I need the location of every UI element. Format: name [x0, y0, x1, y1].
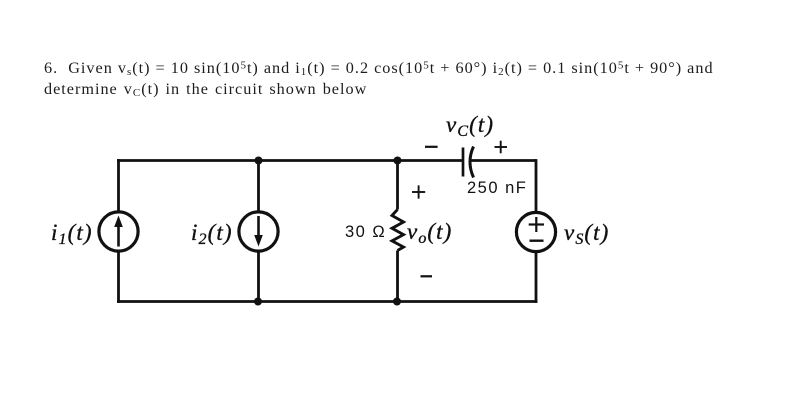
svg-text:vS(t): vS(t) [564, 220, 609, 248]
wire right lower [535, 252, 538, 303]
voltage source VS circle [516, 212, 555, 251]
wire top-right segment [469, 159, 536, 162]
current source I2 arrow [254, 216, 263, 247]
wire top-left segment [117, 159, 463, 162]
wire i2 branch lower [257, 252, 260, 302]
current source I1 arrow [114, 216, 123, 247]
wire resistor branch upper [396, 161, 399, 210]
svg-text:30 Ω: 30 Ω [345, 223, 386, 241]
voltage source VS minus sign [530, 239, 544, 241]
wire left lower [117, 252, 120, 303]
current source I1 circle [99, 212, 138, 251]
voltage source VS plus sign [529, 217, 544, 232]
vo minus sign [421, 275, 433, 277]
wire resistor branch lower [396, 251, 399, 302]
svg-text:vo(t): vo(t) [407, 219, 452, 247]
node junction dot bottom resistor [393, 298, 401, 306]
current source I2 circle [239, 212, 278, 251]
svg-text:i1(t): i1(t) [51, 220, 93, 248]
wire i2 branch upper [257, 161, 260, 212]
node junction dot bottom i2 [254, 298, 262, 306]
svg-text:250 nF: 250 nF [467, 179, 527, 197]
vo plus sign [412, 185, 425, 198]
vc minus sign [425, 146, 438, 148]
svg-text:vC(t): vC(t) [446, 112, 494, 140]
node junction dot top i2 [255, 157, 263, 165]
svg-text:i2(t): i2(t) [191, 220, 233, 248]
wire left upper [117, 159, 120, 211]
node junction dot top resistor [394, 157, 402, 165]
wire bottom [117, 300, 537, 303]
resistor R 30ohm zigzag [392, 210, 404, 251]
capacitor C left plate [462, 148, 465, 177]
vc plus sign [495, 141, 508, 154]
wire right upper [535, 159, 538, 212]
capacitor C right plate curved [470, 147, 474, 178]
